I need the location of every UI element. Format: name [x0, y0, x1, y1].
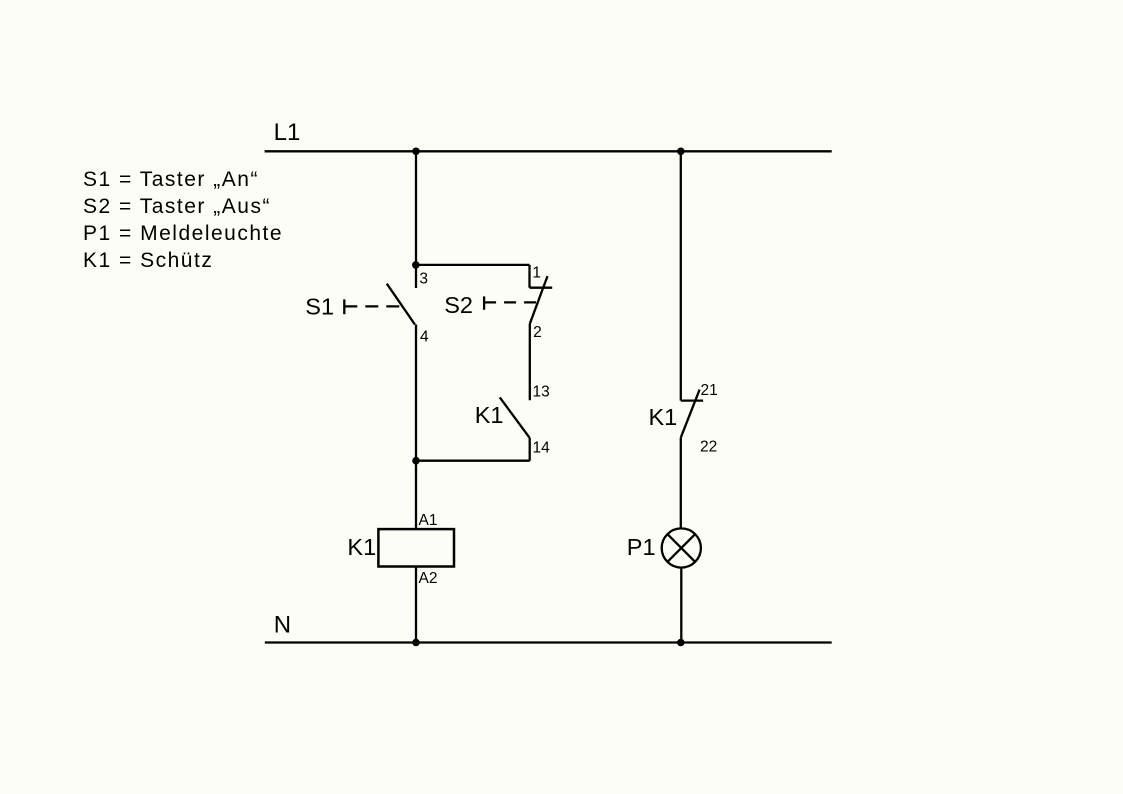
- wire S2 terminal 1 stub: [528, 265, 530, 288]
- switch S2 actuator bar: [483, 296, 485, 309]
- coil K1 rectangle: [378, 529, 454, 566]
- wire lamp to N: [680, 568, 682, 643]
- svg-text:14: 14: [533, 440, 551, 457]
- lamp P1 circle: [662, 528, 701, 567]
- svg-text:2: 2: [533, 324, 542, 341]
- svg-text:13: 13: [533, 384, 550, 401]
- wire junction horizontal to K1 14: [416, 460, 530, 462]
- wire S2 terminal 2 to K1 terminal 13: [529, 324, 531, 400]
- svg-text:21: 21: [701, 382, 718, 399]
- svg-text:1: 1: [532, 265, 541, 282]
- svg-text:N: N: [274, 611, 291, 638]
- svg-text:S1 = Taster „An“: S1 = Taster „An“: [83, 168, 259, 191]
- wire K1 22 to lamp: [680, 438, 682, 529]
- svg-text:4: 4: [420, 329, 429, 346]
- wire S1 lower vertical through junction to coil: [415, 325, 417, 530]
- node junction N/right branch: [677, 639, 685, 647]
- svg-text:K1 = Schütz: K1 = Schütz: [83, 249, 213, 272]
- node junction L1/right branch: [677, 148, 685, 156]
- lamp P1 cross line 1: [667, 534, 695, 562]
- svg-text:P1 = Meldeleuchte: P1 = Meldeleuchte: [83, 222, 283, 245]
- node junction L1/left branch: [412, 148, 420, 156]
- svg-text:22: 22: [700, 439, 717, 456]
- svg-text:A2: A2: [419, 570, 438, 587]
- svg-text:S2: S2: [444, 292, 473, 318]
- lamp P1 cross line 2: [667, 534, 695, 562]
- wire left branch from L1 to S1 terminal 3: [415, 151, 417, 288]
- svg-text:K1: K1: [475, 402, 504, 428]
- switch S1 actuator dashed link: [344, 305, 401, 307]
- wire K1 14 stub: [529, 438, 531, 461]
- svg-text:K1: K1: [347, 534, 376, 560]
- switch S2 stop bar (NC contact): [530, 287, 553, 289]
- contact K1 21-22 stop bar (NC): [681, 399, 703, 401]
- wire branch to S2 horizontal: [416, 264, 530, 266]
- node junction N/left branch: [412, 639, 420, 647]
- wire N rail: [265, 641, 832, 643]
- switch S1 blade (NO contact 3-4): [387, 284, 415, 325]
- node junction S1/S2 branch: [412, 261, 420, 269]
- contact K1 13-14 blade (NO): [500, 397, 530, 438]
- svg-text:K1: K1: [649, 404, 678, 430]
- svg-text:L1: L1: [274, 119, 301, 146]
- switch S1 actuator bar: [343, 299, 345, 314]
- node junction below S1 / K1 14: [412, 457, 420, 465]
- wire L1 rail: [265, 150, 832, 152]
- wire coil A2 to N: [415, 567, 417, 643]
- switch S2 actuator dashed link: [484, 301, 536, 303]
- svg-text:S1: S1: [305, 294, 334, 320]
- switch S2 blade (NC contact 1-2): [530, 276, 548, 324]
- svg-text:A1: A1: [419, 512, 438, 529]
- svg-text:S2 = Taster „Aus“: S2 = Taster „Aus“: [83, 195, 271, 218]
- svg-text:3: 3: [419, 271, 428, 288]
- contact K1 21-22 blade (NC): [681, 390, 700, 438]
- wire right branch from L1 to K1 terminal 21: [680, 151, 682, 400]
- svg-text:P1: P1: [627, 534, 656, 560]
